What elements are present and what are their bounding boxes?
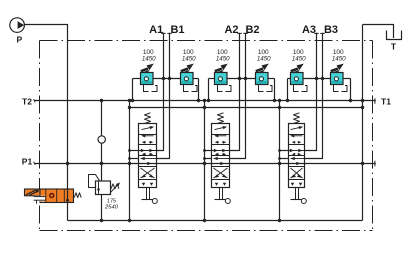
node drop-P1 1 bbox=[128, 162, 131, 165]
node tank drop collector 3 bbox=[278, 219, 281, 222]
value label 1450 (B1) bbox=[182, 55, 196, 62]
check valve bbox=[98, 136, 105, 143]
valve 2 row2 arrow bbox=[214, 134, 226, 137]
valve 3 row4 arrow bbox=[291, 157, 305, 160]
svg-text:B3: B3 bbox=[324, 24, 338, 36]
inlet valve spring bbox=[74, 193, 81, 198]
valve 1 row4 arrow bbox=[141, 157, 157, 160]
valve 1 P1 arrow bbox=[147, 162, 151, 165]
wire bridge segment mid 1 bbox=[153, 78, 181, 80]
tank T symbol bbox=[387, 31, 402, 40]
wire port A1 bbox=[157, 33, 164, 151]
valve 3 row6 chevrons bbox=[291, 183, 303, 186]
value label 1450 (A3) bbox=[292, 55, 306, 62]
relief arrow (A2) bbox=[215, 64, 228, 73]
relief pilot loop (B2) bbox=[259, 85, 273, 92]
wire valve T stub 1 bbox=[130, 150, 139, 152]
relief arrow (B2) bbox=[256, 64, 269, 73]
valve 3 row2 stubs bbox=[292, 141, 301, 144]
wire valve T stub 3 bbox=[280, 150, 289, 152]
relief arrow (B3) bbox=[331, 64, 344, 73]
boundary dash-dot bottom bbox=[40, 230, 373, 232]
wire valve T stub 2 bbox=[205, 150, 212, 152]
svg-text:175: 175 bbox=[107, 198, 116, 204]
valve 2 P1 arrow bbox=[220, 162, 224, 165]
node bridge left V1 bbox=[131, 99, 134, 102]
wire bridge segment right 2 bbox=[268, 78, 275, 80]
port relief valve (B3) bbox=[331, 73, 344, 85]
value label 1450 (A1) bbox=[142, 55, 156, 62]
node B-side stub 3 bbox=[278, 157, 281, 160]
wire port B3 bbox=[305, 33, 323, 159]
valve 3 row1 arrow bbox=[291, 126, 304, 130]
valve 1 row2 stubs bbox=[142, 141, 153, 144]
valve 2 row line 4 bbox=[212, 166, 230, 168]
wire relief bridge right V3 bbox=[350, 79, 352, 101]
wire right tank gallery bbox=[362, 25, 364, 221]
node gallery-T rail bbox=[361, 99, 364, 102]
svg-text:A2: A2 bbox=[224, 24, 238, 36]
node B-side stub 2 bbox=[203, 157, 206, 160]
valve 3 row5 cross bbox=[291, 168, 303, 178]
svg-text:1450: 1450 bbox=[216, 55, 230, 62]
valve 2 row5 cross bbox=[214, 168, 228, 178]
node bridge-B2 bbox=[244, 77, 247, 80]
port tick P1 left bbox=[34, 162, 36, 165]
port tick A2 bbox=[237, 32, 241, 34]
wire to tank T bbox=[363, 25, 394, 39]
label P bbox=[16, 35, 22, 45]
valve 2 row2 stubs bbox=[215, 141, 226, 144]
label B1 bbox=[170, 24, 184, 36]
valve 1 row5 cross bbox=[141, 168, 155, 178]
node bridge-A1 bbox=[162, 77, 165, 80]
node B-side stub 1 bbox=[128, 157, 131, 160]
node tank drop rail1 1 bbox=[128, 99, 131, 102]
spring (valve 3) bbox=[294, 113, 300, 124]
svg-text:A1: A1 bbox=[149, 24, 163, 36]
valve 2 row4 arrow bbox=[214, 157, 230, 160]
label T2 bbox=[22, 96, 32, 106]
wire valve B-side stub 2 bbox=[205, 158, 212, 160]
relief pilot loop (B3) bbox=[334, 85, 348, 92]
wire bridge segment left 2 bbox=[209, 78, 215, 80]
value label 100 (B3) bbox=[333, 49, 344, 56]
wire relief bridge right V2 bbox=[274, 79, 276, 101]
svg-text:2540: 2540 bbox=[104, 205, 119, 211]
wire relief column to valve bbox=[101, 164, 103, 182]
valve 2 row6 chevrons bbox=[215, 183, 227, 186]
port relief valve (A1) bbox=[141, 73, 154, 85]
port relief valve (B1) bbox=[181, 73, 194, 85]
label 2540 bbox=[104, 205, 119, 211]
wire tank drop 2 bbox=[204, 101, 206, 221]
wire bridge segment left 3 bbox=[288, 78, 291, 80]
valve 2 row3 stubs bbox=[215, 153, 226, 156]
port tick B2 bbox=[243, 32, 247, 34]
node gallery-rail2 bbox=[361, 106, 364, 109]
valve 1 row1 arrow bbox=[142, 126, 155, 130]
node main relief collector bbox=[100, 219, 103, 222]
relief pilot loop (A2) bbox=[218, 85, 232, 92]
wire port B2 bbox=[230, 33, 246, 159]
node bridge left V2 bbox=[207, 99, 210, 102]
node pump feed at P1 bbox=[66, 162, 69, 165]
wire bridge segment left 1 bbox=[133, 78, 141, 80]
node drop-P1 3 bbox=[278, 162, 281, 165]
relief pilot loop (B1) bbox=[184, 85, 198, 92]
valve 1 body bbox=[139, 124, 157, 188]
node tank drop rail2 1 bbox=[128, 106, 131, 109]
value label 1450 (B2) bbox=[257, 55, 271, 62]
node tank drop collector 2 bbox=[203, 219, 206, 222]
svg-text:T2: T2 bbox=[22, 96, 32, 106]
valve 3 body bbox=[289, 124, 305, 188]
node drop-P1 2 bbox=[203, 162, 206, 165]
label T bbox=[391, 42, 397, 52]
wire pump to valve inlet bbox=[24, 25, 67, 190]
port tick A3 bbox=[314, 32, 318, 34]
node bridge-A3 bbox=[315, 77, 318, 80]
svg-text:1450: 1450 bbox=[332, 55, 346, 62]
valve 2 row line 1 bbox=[212, 134, 230, 136]
valve 3 row line 3 bbox=[289, 155, 305, 157]
svg-text:A3: A3 bbox=[302, 24, 316, 36]
value label 100 (B1) bbox=[183, 49, 194, 56]
svg-text:1450: 1450 bbox=[292, 55, 306, 62]
wire bridge segment right 1 bbox=[193, 78, 199, 80]
label P1 bbox=[22, 157, 33, 167]
node T stub 3 bbox=[278, 149, 281, 152]
wire bridge segment mid 3 bbox=[303, 78, 331, 80]
svg-text:T1: T1 bbox=[381, 96, 391, 106]
main relief spring bbox=[111, 184, 119, 189]
svg-text:B2: B2 bbox=[245, 24, 259, 36]
valve 3 row line 4 bbox=[289, 166, 305, 168]
wire relief bridge left V1 bbox=[132, 79, 134, 101]
value label 100 (B2) bbox=[258, 49, 269, 56]
value label 100 (A1) bbox=[143, 49, 154, 56]
label A1 bbox=[149, 24, 163, 36]
port tick T1 bbox=[374, 98, 376, 104]
valve 1 row line 5 bbox=[139, 179, 157, 181]
main relief internal arrow bbox=[97, 183, 100, 193]
valve 2 row1 arrow bbox=[215, 126, 228, 130]
relief arrow (A1) bbox=[141, 64, 154, 73]
wire relief column upper bbox=[101, 101, 103, 136]
wire port A3 bbox=[305, 33, 317, 151]
valve 1 row3 arrows bbox=[139, 149, 157, 152]
valve 2 row line 3 bbox=[212, 155, 230, 157]
relief arrow (A3) bbox=[291, 64, 304, 73]
wire relief bridge right V1 bbox=[198, 79, 200, 101]
relief pilot loop (A3) bbox=[294, 85, 308, 92]
label B2 bbox=[245, 24, 259, 36]
wire tank drop 1 bbox=[129, 101, 131, 221]
port tick A1 bbox=[161, 32, 165, 34]
lever (valve 3) bbox=[291, 188, 307, 204]
svg-text:T: T bbox=[391, 42, 397, 52]
wire valve B-side stub 1 bbox=[130, 158, 139, 160]
svg-text:1450: 1450 bbox=[142, 55, 156, 62]
svg-text:P1: P1 bbox=[22, 157, 33, 167]
wire port B1 bbox=[157, 33, 170, 159]
spring (valve 1) bbox=[145, 113, 151, 124]
value label 1450 (A2) bbox=[216, 55, 230, 62]
value label 1450 (B3) bbox=[332, 55, 346, 62]
valve 3 row3 arrows bbox=[289, 149, 305, 152]
valve 2 body bbox=[212, 124, 230, 188]
boundary dash-dot left bbox=[39, 41, 41, 231]
port relief valve (A3) bbox=[291, 73, 304, 85]
relief arrow (B1) bbox=[181, 64, 194, 73]
node T stub 1 bbox=[128, 149, 131, 152]
label 175 bbox=[107, 198, 116, 204]
valve 2 row3 arrows bbox=[212, 149, 230, 152]
valve 3 row line 1 bbox=[289, 134, 305, 136]
port tick T2 bbox=[34, 99, 36, 102]
value label 100 (A3) bbox=[293, 49, 304, 56]
node bridge right V3 bbox=[349, 99, 352, 102]
wire inlet valve to collector bbox=[67, 203, 69, 221]
label A2 bbox=[224, 24, 238, 36]
node bridge left V3 bbox=[286, 99, 289, 102]
svg-text:1450: 1450 bbox=[182, 55, 196, 62]
valve 1 row3 stubs bbox=[142, 153, 153, 156]
port tick B3 bbox=[320, 32, 324, 34]
wire relief bridge left V2 bbox=[208, 79, 210, 101]
valve 1 row line 4 bbox=[139, 166, 157, 168]
boundary dash-dot top bbox=[40, 40, 373, 42]
node tank drop rail1 2 bbox=[203, 99, 206, 102]
valve 1 row line 3 bbox=[139, 155, 157, 157]
valve 1 row2 arrow bbox=[141, 134, 153, 137]
wire tank rail 2 bbox=[130, 107, 363, 109]
valve 1 row line 2 bbox=[139, 144, 157, 146]
valve 3 P1 arrow bbox=[296, 162, 300, 165]
port relief valve (B2) bbox=[256, 73, 269, 85]
valve 3 row line 5 bbox=[289, 179, 305, 181]
relief pilot loop (A1) bbox=[144, 85, 158, 92]
wire rail T2-T1 bbox=[35, 100, 376, 102]
valve 2 row line 5 bbox=[212, 179, 230, 181]
node tank drop rail2 3 bbox=[278, 106, 281, 109]
node bridge-B3 bbox=[321, 77, 324, 80]
main relief adjust arrow bbox=[110, 182, 120, 192]
svg-text:B1: B1 bbox=[170, 24, 184, 36]
main relief pilot loop bbox=[89, 175, 100, 188]
wire port A2 bbox=[230, 33, 240, 151]
valve 3 row line 2 bbox=[289, 144, 305, 146]
label T1 bbox=[381, 96, 391, 106]
valve 1 row6 chevrons bbox=[142, 183, 154, 186]
valve 3 row3 stubs bbox=[292, 153, 301, 156]
port tick P1 right bbox=[374, 161, 376, 167]
node tank drop collector 1 bbox=[128, 219, 131, 222]
node bridge-B1 bbox=[168, 77, 171, 80]
wire bridge segment mid 2 bbox=[227, 78, 256, 80]
wire relief bridge left V3 bbox=[287, 79, 289, 101]
node tank drop rail2 2 bbox=[203, 106, 206, 109]
wire valve B-side stub 3 bbox=[280, 158, 289, 160]
wire pump feed through inlet valve bbox=[67, 189, 69, 203]
node bridge-A2 bbox=[238, 77, 241, 80]
valve 1 row line 1 bbox=[139, 134, 157, 136]
node T stub 2 bbox=[203, 149, 206, 152]
wire tank drop 3 bbox=[279, 101, 281, 221]
main relief valve body bbox=[96, 181, 111, 195]
node bridge right V1 bbox=[197, 99, 200, 102]
node tank drop rail1 3 bbox=[278, 99, 281, 102]
node gallery-P1 bbox=[361, 162, 364, 165]
value label 100 (A2) bbox=[217, 49, 228, 56]
node bridge right V2 bbox=[273, 99, 276, 102]
inlet valve drain slots bbox=[34, 196, 46, 204]
node inlet valve outlet bbox=[66, 199, 69, 202]
port tick B1 bbox=[167, 32, 171, 34]
label B3 bbox=[324, 24, 338, 36]
valve 3 row2 arrow bbox=[290, 134, 302, 137]
svg-text:1450: 1450 bbox=[257, 55, 271, 62]
valve 2 row line 2 bbox=[212, 144, 230, 146]
port relief valve (A2) bbox=[215, 73, 228, 85]
pump P bbox=[10, 18, 25, 33]
wire rail P1 bbox=[35, 163, 376, 165]
wire bridge segment right 3 bbox=[343, 78, 351, 80]
node relief column P1 bbox=[100, 162, 103, 165]
wire relief column mid bbox=[101, 143, 103, 163]
wire bottom tank collector bbox=[68, 220, 363, 222]
svg-text:P: P bbox=[16, 35, 22, 45]
inlet valve (highlighted) bbox=[25, 189, 74, 203]
lever (valve 1) bbox=[142, 188, 158, 204]
wire main relief drain bbox=[101, 195, 103, 221]
label A3 bbox=[302, 24, 316, 36]
lever (valve 2) bbox=[215, 188, 231, 204]
spring (valve 2) bbox=[218, 113, 224, 124]
node relief column rail1 bbox=[100, 99, 103, 102]
boundary dash-dot right bbox=[372, 41, 374, 231]
